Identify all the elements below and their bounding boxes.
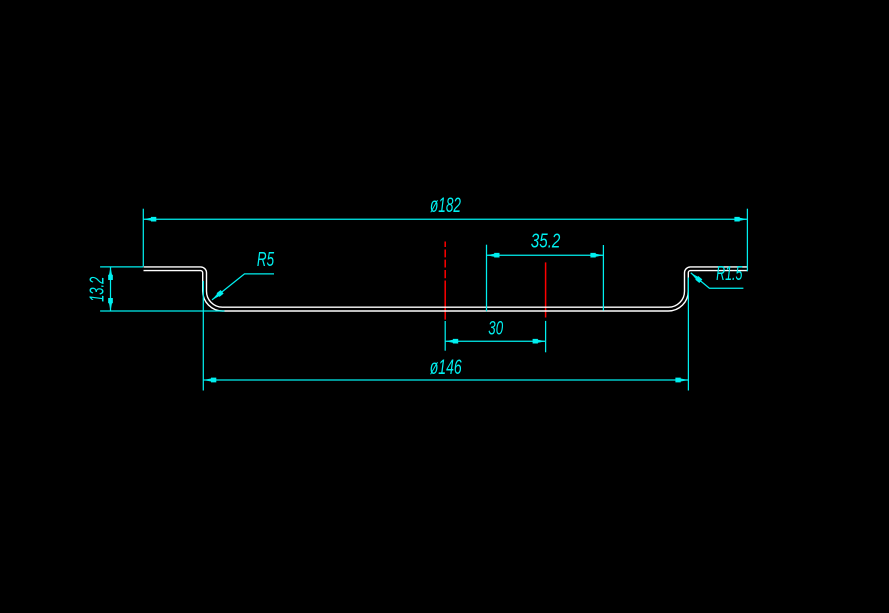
svg-text:ø146: ø146 (430, 356, 462, 379)
svg-text:R1.5: R1.5 (716, 263, 743, 285)
inner/bottom surface (144, 271, 748, 311)
extension line right (746, 209, 748, 272)
extension line bottom (100, 310, 224, 312)
extension line right (545, 321, 547, 352)
extension line right (687, 278, 689, 391)
extension line left (444, 321, 446, 351)
extension line top (100, 266, 143, 268)
dimension line with arrows (445, 340, 545, 342)
extension line right (602, 245, 604, 311)
dimension ø182 (top) (143, 209, 747, 272)
outer/top surface (144, 267, 748, 307)
centerline hole (red, solid) at x=545.6 (545, 262, 547, 317)
svg-text:35.2: 35.2 (531, 231, 561, 253)
leader R1.5 (691, 273, 744, 288)
extension line left (202, 281, 204, 391)
centerline axis (red, dashed) at part axis x=445.2 (444, 242, 446, 320)
dimension 13.2 (left, vertical) (100, 267, 224, 311)
dimension ø146 (bottom) (203, 278, 688, 391)
dimension 30 (445, 321, 545, 352)
extension line left (142, 209, 144, 267)
dimension line with arrows (203, 379, 688, 381)
leader R5 (212, 274, 274, 300)
dimension 35.2 (487, 245, 604, 312)
svg-text:ø182: ø182 (430, 194, 461, 217)
dimension line with arrows (487, 254, 604, 256)
dimension line with arrows (110, 267, 112, 311)
part outline: sheet cross-section (white) (144, 267, 748, 311)
extension line left (486, 245, 488, 312)
dimension line with arrows (143, 218, 747, 220)
svg-text:R5: R5 (257, 249, 275, 271)
svg-text:30: 30 (488, 319, 503, 340)
svg-text:13.2: 13.2 (85, 276, 108, 302)
